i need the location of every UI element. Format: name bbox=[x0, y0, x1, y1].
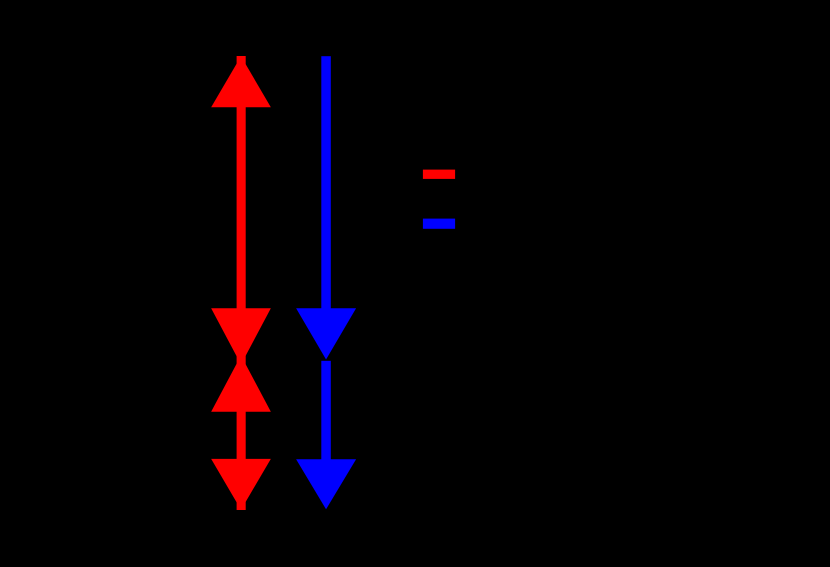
legend red line sample bbox=[423, 170, 455, 179]
red vector shaft (continuous, y 56 to 510) bbox=[237, 56, 246, 510]
red up arrowhead (top) bbox=[211, 56, 271, 107]
legend blue line sample bbox=[423, 219, 455, 229]
blue down arrowhead (middle) bbox=[296, 308, 356, 359]
red down arrowhead (bottom) bbox=[211, 459, 271, 510]
red down arrowhead (middle) bbox=[211, 308, 271, 364]
blue down arrowhead (bottom) bbox=[296, 459, 356, 509]
blue vector shaft (lower segment) bbox=[321, 361, 331, 460]
red up arrowhead (lower middle) bbox=[211, 356, 271, 412]
blue vector shaft (upper segment) bbox=[321, 56, 331, 350]
